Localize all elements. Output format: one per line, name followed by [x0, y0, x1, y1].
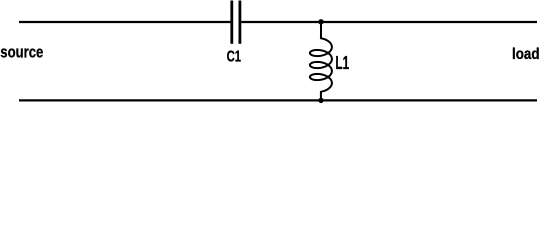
junction dot bottom [318, 98, 323, 103]
wire bottom [19, 99, 537, 101]
svg-text:C1: C1 [227, 49, 241, 66]
wire top-right (C1 to load) [241, 21, 537, 23]
capacitor C1 [232, 1, 240, 44]
svg-text:source: source [0, 43, 43, 62]
inductor L1 [310, 22, 332, 100]
junction dot top [318, 19, 323, 24]
svg-text:L1: L1 [335, 53, 349, 73]
wire top-left (source to C1) [19, 21, 230, 23]
svg-text:load: load [512, 46, 540, 63]
